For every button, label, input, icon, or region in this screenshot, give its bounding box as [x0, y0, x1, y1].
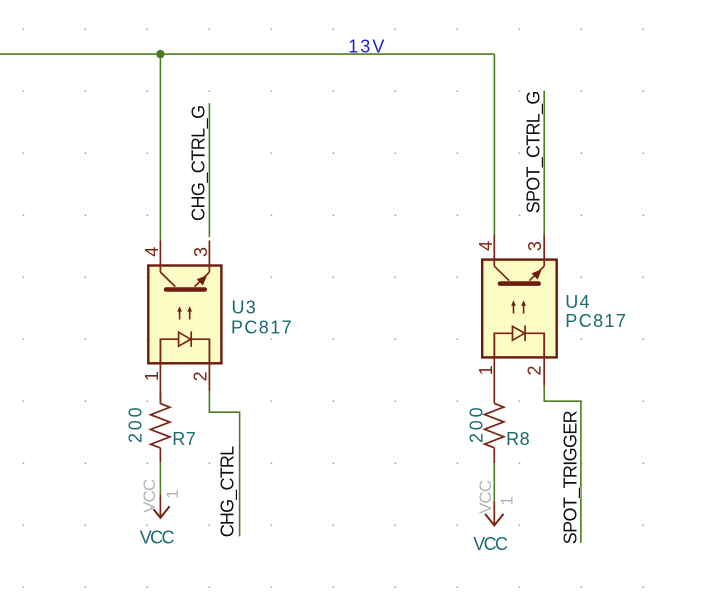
U3 phototransistor base bar: [164, 287, 207, 292]
svg-text:CHG_CTRL: CHG_CTRL: [217, 446, 238, 537]
U4 pin 2: [543, 333, 545, 385]
U4 emitter arrow: [532, 269, 542, 279]
resistor R8: [485, 403, 504, 447]
wire vertical to U4 pin 4: [493, 54, 495, 235]
svg-text:3: 3: [525, 241, 545, 251]
U4 phototransistor base bar: [498, 281, 541, 286]
junction 13V node: [156, 50, 164, 58]
op-amp U4 body (optocoupler PC817): [482, 260, 557, 358]
svg-text:4: 4: [142, 247, 162, 257]
U3 phototransistor emitter diagonal: [195, 272, 210, 287]
power VCC symbol under R7: [151, 495, 169, 518]
U3 LED cathode bar: [190, 331, 192, 347]
svg-text:200: 200: [466, 405, 486, 443]
wire R7 to VCC: [159, 462, 161, 495]
U4 LED anode wire: [494, 333, 512, 357]
U4 LED cathode wire: [525, 333, 544, 357]
svg-text:CHG_CTRL_G: CHG_CTRL_G: [188, 105, 209, 221]
wire vertical junction to U3 pin 4: [159, 54, 161, 240]
wire U4 pin 2 to SPOT_TRIGGER label: [544, 385, 581, 543]
U3 emitter arrow: [197, 275, 207, 285]
wire label CHG_CTRL_G to U3 pin 3: [208, 103, 210, 237]
resistor R7: [151, 404, 170, 448]
op-amp U3 body (optocoupler PC817): [148, 266, 221, 364]
R8 bottom pin: [493, 448, 495, 464]
U3 pin 2: [208, 339, 210, 391]
U3 light arrow right: [187, 306, 192, 319]
U4 pin 1: [493, 333, 495, 403]
U4 phototransistor collector diagonal: [494, 266, 509, 281]
svg-text:2: 2: [525, 365, 545, 375]
svg-text:R8: R8: [506, 429, 530, 449]
svg-text:SPOT_CTRL_G: SPOT_CTRL_G: [523, 91, 544, 213]
svg-text:13V: 13V: [348, 36, 386, 56]
svg-text:VCC: VCC: [473, 534, 508, 554]
U4 pin 3: [543, 235, 545, 267]
U4 light arrow right: [521, 300, 526, 313]
U4 light arrow left: [511, 300, 516, 313]
svg-text:1: 1: [142, 371, 162, 381]
svg-text:VCC: VCC: [140, 479, 159, 513]
wire label SPOT_CTRL_G to U4 pin 3: [543, 91, 545, 235]
R7 top pin: [159, 391, 161, 403]
svg-text:VCC: VCC: [476, 480, 495, 514]
U3 pin 1: [159, 339, 161, 403]
U4 pin 4: [493, 235, 495, 267]
U4 phototransistor emitter diagonal: [529, 266, 544, 281]
svg-text:U3: U3: [232, 298, 257, 318]
wire U3 pin 2 to CHG_CTRL label: [209, 391, 239, 536]
svg-text:R7: R7: [172, 429, 196, 449]
power VCC symbol under R8: [485, 501, 503, 525]
U3 LED anode wire: [160, 339, 178, 363]
U3 LED cathode wire: [191, 339, 209, 363]
svg-text:1: 1: [163, 489, 182, 498]
wire R8 to VCC: [493, 463, 495, 501]
svg-text:3: 3: [191, 247, 211, 257]
U3 pin 4: [159, 240, 161, 272]
svg-text:U4: U4: [565, 292, 590, 312]
svg-text:PC817: PC817: [565, 311, 627, 331]
U4 LED triangle: [513, 326, 525, 340]
svg-text:VCC: VCC: [140, 528, 175, 548]
U3 LED triangle: [179, 332, 191, 346]
svg-text:SPOT_TRIGGER: SPOT_TRIGGER: [561, 410, 582, 544]
svg-text:4: 4: [476, 241, 496, 251]
R7 bottom pin: [159, 448, 161, 462]
svg-text:2: 2: [191, 371, 211, 381]
U4 LED cathode bar: [524, 326, 526, 342]
U3 phototransistor collector diagonal: [160, 272, 175, 287]
svg-text:200: 200: [126, 405, 146, 443]
U3 pin 3: [208, 240, 210, 272]
svg-text:PC817: PC817: [231, 317, 293, 337]
svg-text:1: 1: [498, 496, 517, 505]
svg-text:1: 1: [476, 365, 496, 375]
U3 light arrow left: [177, 306, 182, 319]
wire 13V horizontal bus: [0, 53, 494, 55]
